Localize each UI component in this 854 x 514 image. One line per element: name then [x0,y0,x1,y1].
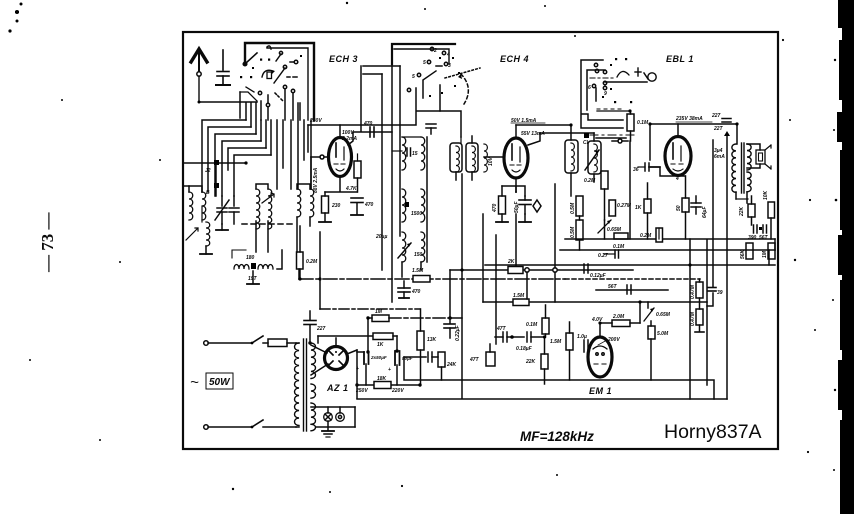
resistor 18K [355,376,404,394]
scan edge band right [832,0,854,514]
osc coil L8 [232,250,282,284]
svg-text:0.22µF: 0.22µF [455,324,461,341]
svg-text:2: 2 [433,48,437,54]
svg-text:20µµ: 20µµ [375,234,387,240]
wire [528,133,594,145]
wire [649,167,685,176]
wire B+ [356,350,358,398]
svg-text:MF=128kHz: MF=128kHz [520,429,594,444]
jack =39 [707,288,723,307]
wire [747,144,760,150]
transformer secondary heater1 [311,384,316,398]
wire [422,81,424,98]
wire switch box left [239,92,241,118]
resistor 230 [319,192,341,222]
resistor 2.0M [600,314,640,327]
wire [706,240,708,385]
wires switch drops [261,89,300,120]
wire dashdot 309 [320,308,420,310]
svg-text:470: 470 [363,121,373,127]
svg-text:2.2mA: 2.2mA [341,136,357,142]
svg-text:50µF: 50µF [514,201,520,213]
svg-text:5: 5 [412,74,415,80]
switch mains b [252,420,263,427]
capacitor 50uF b [388,351,413,385]
svg-text:ECH 3: ECH 3 [329,54,358,64]
tube EBL1 [665,124,691,182]
node 200V [598,337,620,345]
svg-text:0.2M: 0.2M [584,178,596,184]
svg-text:1K: 1K [635,205,642,211]
svg-text:0.47M: 0.47M [690,284,696,299]
coil IF2c [484,144,487,172]
wire [629,141,631,239]
label 50W [206,373,233,389]
svg-text:0.5M: 0.5M [570,202,576,214]
wire [587,70,605,110]
svg-text:227: 227 [316,326,326,332]
svg-text:5.0M: 5.0M [657,331,669,337]
capacitor pad [426,124,436,134]
wire [357,384,420,386]
core mark [214,160,219,165]
band switch S1 frame wire [245,43,314,120]
page number 73 [38,212,57,274]
jack plug [605,68,656,82]
wire cathode down [515,191,517,193]
svg-text:1500: 1500 [411,211,422,217]
svg-text:0.1M: 0.1M [526,322,538,328]
potentiometer 0.65M [598,220,622,233]
svg-text:0.18µF: 0.18µF [516,346,533,352]
svg-text:0.65M: 0.65M [656,312,671,318]
wire [311,345,328,375]
svg-text:+: + [356,366,359,372]
tube AZ1 [325,347,348,370]
capacitor 0.12uF [584,264,607,279]
capacitor 47T d [495,326,524,342]
svg-text:235V 38mA: 235V 38mA [675,116,703,122]
resistor 50 [676,176,689,239]
node anode rail symbol [612,139,628,143]
IF transformer 1b [402,189,425,222]
fuse [263,339,296,347]
output transformer secondary b [747,172,751,192]
resistor 0.5M a [570,196,583,216]
trimmer T2 [262,193,274,203]
wire bus 270 [450,269,633,271]
resistor 0.27M [609,200,632,216]
svg-text:56K: 56K [740,249,746,259]
resistor 47K [345,154,361,192]
transformer secondary HT [311,343,316,379]
svg-text:47T: 47T [469,357,480,363]
speaker [756,145,771,169]
svg-text:1M: 1M [375,309,383,315]
svg-text:0.47M: 0.47M [690,311,696,326]
IF3 can B [585,133,601,182]
wire [256,184,268,189]
wire [524,214,526,222]
wire [689,239,691,399]
capacitor 0.27 [598,250,619,259]
svg-text:— 73 —: — 73 — [38,212,57,274]
svg-text:180: 180 [246,255,255,261]
node grid [584,133,589,138]
wire [267,48,308,120]
svg-text:56T: 56T [608,284,618,290]
svg-text:0.1M: 0.1M [613,244,625,250]
capacitor 0.64uF [691,196,708,218]
node [553,268,557,272]
resistor 22K c [739,196,755,225]
output transformer secondary a [747,144,751,170]
capacitor 4700 [351,198,374,215]
wire [515,214,517,266]
wire [255,221,257,252]
capacitor 227 [304,311,326,343]
transformer core [303,339,305,431]
svg-text:22K: 22K [525,359,536,365]
wire vertical osc [319,232,321,309]
coil L6 [297,189,301,217]
svg-text:Cl: Cl [583,140,589,146]
svg-text:36: 36 [633,167,639,173]
svg-text:18K: 18K [377,376,387,382]
svg-text:470: 470 [411,289,421,295]
svg-text:1.5M: 1.5M [550,339,562,345]
svg-text:6: 6 [588,85,591,91]
coil L2 [202,192,206,220]
antenna series capacitor [216,50,230,85]
svg-text:50W: 50W [209,377,231,388]
resistor 0.1M c [526,305,549,337]
wire long verticals [461,174,463,398]
svg-text:2x50µF: 2x50µF [370,355,387,360]
capacitor 0.22uF [444,318,461,341]
coil L4 [256,189,260,229]
resistor 0.2M b [584,171,608,220]
schematic frame [183,32,778,449]
svg-text:0.2M: 0.2M [306,259,318,265]
coil L7 [310,189,314,217]
wire [439,85,441,111]
core [741,143,743,193]
svg-text:4.7K: 4.7K [345,186,357,192]
svg-text:1K: 1K [377,342,384,348]
svg-text:J2: J2 [205,168,211,174]
wire bus 399 [357,398,727,400]
svg-text:39: 39 [717,290,723,296]
wire vertical rails IF1 [381,74,383,270]
transformer primary [295,343,300,426]
wire [189,186,202,192]
resistor 1.5M c [550,322,573,380]
svg-text:10V: 10V [488,156,494,166]
svg-text:5: 5 [423,60,426,66]
coil L5 [268,189,272,229]
EM1 enclosure [404,357,714,399]
resistor 470c [492,178,516,222]
svg-text:EM 1: EM 1 [589,386,612,396]
node [525,268,529,272]
resistor 0.1M b [613,233,628,250]
resistor 1M b [762,243,775,259]
svg-text:56T: 56T [759,235,769,241]
capacitor 50uF [514,196,531,214]
wire anode rail right [650,124,737,160]
svg-text:55V 13mA: 55V 13mA [521,131,545,137]
wire [325,176,357,192]
resistor 13K [417,309,437,385]
osc switch S2 frame wire [392,44,455,64]
resistor 22K b [525,337,548,384]
svg-text:50: 50 [676,205,682,211]
svg-text:15: 15 [412,151,418,157]
wire rails right [565,238,775,240]
svg-text:0.1M: 0.1M [637,120,649,126]
switch S1 contacts [240,46,302,107]
wire [639,302,641,323]
IF2 can B [466,136,478,180]
core mark [214,183,219,188]
svg-text:6mA: 6mA [714,154,725,160]
resistor 1M [368,309,462,322]
resistor 1.5M b [513,293,529,306]
capacitor 36 [633,163,660,173]
svg-text:200V: 200V [607,337,620,343]
svg-text:4: 4 [446,52,450,58]
wire [348,132,392,145]
varcap C2 [229,196,239,224]
wire [297,184,310,189]
wire [401,262,403,277]
capacitor 56T [608,284,631,294]
wire dotted [445,68,480,78]
svg-text:1.5M: 1.5M [513,293,525,299]
svg-text:0.12µF: 0.12µF [590,273,607,279]
capacitor 0.18uF [516,332,545,352]
svg-text:24K: 24K [446,362,457,368]
resistor 0.1M d [627,111,649,141]
node [448,316,452,320]
wire [394,49,449,64]
coil L1 [189,192,193,220]
resistor 1K b [318,333,397,350]
resistor 0.2M c [640,228,663,242]
svg-text:AZ 1: AZ 1 [326,383,349,393]
wire [502,186,525,196]
svg-text:EBL 1: EBL 1 [666,54,694,64]
wire [604,220,606,239]
wire [367,318,369,352]
power terminal A [204,341,209,346]
svg-text:64µF: 64µF [702,206,708,218]
tube ECH3 [311,138,352,190]
svg-text:9: 9 [604,91,607,97]
svg-text:390: 390 [748,235,757,241]
capacitor 1.0u [577,334,588,352]
capacitor bias [404,352,438,362]
wire bus left [184,162,246,164]
wire [526,272,528,299]
wire bus 302 [483,301,707,303]
svg-text:0.65M: 0.65M [607,227,622,233]
IF transformer 1a [392,137,425,170]
resistor 0.47M a [690,279,703,299]
svg-text:230: 230 [331,203,341,209]
svg-text:Horny837A: Horny837A [664,421,762,443]
svg-text:50µF: 50µF [402,356,413,361]
svg-text:13K: 13K [427,337,437,343]
wire ladder staircase [202,103,311,196]
varcap C1 [215,196,229,224]
node diamond [533,200,541,212]
svg-text:~: ~ [190,374,199,391]
capacitor 390 [748,225,757,241]
switch mains a [252,336,263,343]
wire [712,140,714,287]
svg-text:4: 4 [675,176,679,182]
resistor 5.0M [648,321,669,380]
IF3 can A [565,125,578,196]
capacitor 470 [363,121,374,137]
output transformer primary [732,144,736,192]
svg-text:150: 150 [414,252,423,258]
wire anode rail [339,125,341,138]
svg-text:10K: 10K [763,190,769,200]
svg-text:1.0µ: 1.0µ [577,334,587,340]
scan specks top-left [8,3,22,33]
gang dashes [242,223,296,225]
wire [484,156,504,158]
resistor 1K [635,183,651,239]
svg-text:250V: 250V [355,388,368,394]
resistor 2K [507,259,523,274]
svg-text:2.0M: 2.0M [612,314,625,320]
capacitor 56T b [759,225,769,241]
wire [208,426,251,428]
transformer secondary heater2 [311,403,316,431]
svg-text:ECH 4: ECH 4 [500,54,529,64]
resistor 10K [763,190,775,239]
tube ECH4 [504,125,571,178]
svg-text:1.5M: 1.5M [412,268,424,274]
capacitor 227 b [711,113,731,122]
wire [582,114,623,120]
svg-text:0.2M: 0.2M [640,233,652,239]
resistor 24K [438,352,457,380]
potentiometer 0.65M b [644,302,671,321]
svg-text:2K: 2K [507,259,515,265]
svg-text:3: 3 [448,63,451,69]
ground [200,246,212,254]
wire dashdot [590,134,634,136]
capacitor 2x50uF [356,352,387,385]
svg-text:0.5M: 0.5M [570,226,576,238]
svg-text:+: + [388,367,391,373]
wire bus 290 [596,289,668,291]
wire [735,192,737,199]
coil L3 [206,222,210,246]
capacitor 4700b [398,281,421,298]
wire antenna feed [199,101,257,103]
svg-text:B: B [206,190,210,196]
svg-text:220V: 220V [391,388,404,394]
resistor 0.47M b [690,298,704,332]
heater bus [311,406,355,408]
svg-text:227: 227 [711,113,721,119]
resistor 1.5M [412,268,430,282]
svg-text:1M: 1M [762,250,768,258]
wire [597,110,630,112]
node 22T [713,126,724,132]
resistor 56K [740,243,753,259]
wire [208,342,251,344]
ground [216,224,228,230]
svg-text:470: 470 [492,203,498,213]
ground [322,421,334,437]
tube EM1 [588,323,612,377]
trimmer T1 [186,228,198,240]
switch S3 contacts [588,58,632,103]
resistor 0.5M b [570,216,583,250]
svg-text:88V 2.5mA: 88V 2.5mA [313,167,319,193]
resistor 0.2M [297,226,318,278]
svg-text:470: 470 [364,202,374,208]
switch S2 contacts [407,47,468,104]
wire 22T tap [724,131,730,399]
power terminal B [204,425,209,430]
antenna [191,49,207,102]
lamp 2 [336,407,345,421]
IF2 can A [450,143,462,180]
svg-text:230V: 230V [309,118,322,124]
lamp 1 [324,407,333,421]
svg-text:22T: 22T [713,126,724,132]
svg-text:47T: 47T [496,326,507,332]
IF transformer 1c [375,232,425,262]
wire bus AVC 279 [299,278,565,280]
pickup switch S3 bracket [581,60,623,128]
svg-text:22K: 22K [739,206,745,217]
box 47T [469,344,495,366]
